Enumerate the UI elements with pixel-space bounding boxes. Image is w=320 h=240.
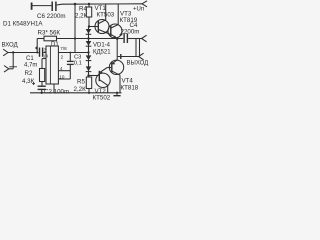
wire pin10 <box>58 78 70 80</box>
node <box>87 51 89 53</box>
node <box>41 92 43 94</box>
diode VD1 <box>86 29 92 34</box>
svg-text:0,1: 0,1 <box>74 61 82 67</box>
wire <box>89 26 98 28</box>
svg-text:С2 100m: С2 100m <box>44 88 69 95</box>
transistor VT2 <box>96 73 110 87</box>
transistor VT4 <box>109 60 123 74</box>
wire (rail to IC supply) <box>74 4 76 53</box>
ground rail <box>30 92 122 94</box>
wire top rail <box>57 4 142 5</box>
wire pin4 <box>58 70 70 72</box>
svg-text:14: 14 <box>43 54 49 59</box>
wire output lower <box>118 56 139 58</box>
node <box>88 92 90 94</box>
svg-text:КТ818: КТ818 <box>121 84 139 91</box>
input terminal lower <box>4 66 9 69</box>
svg-text:КТ503: КТ503 <box>97 12 115 19</box>
capacitor C3 <box>69 53 71 62</box>
svg-text:R5: R5 <box>77 79 85 86</box>
input terminal <box>3 49 8 52</box>
node <box>74 37 76 39</box>
wire input <box>8 52 39 54</box>
node <box>87 37 89 39</box>
svg-text:2,2К: 2,2К <box>75 13 88 20</box>
wire output vertical <box>116 39 118 61</box>
capacitor C4 <box>123 34 125 44</box>
op-amp D1 <box>46 46 58 84</box>
svg-text:7/8: 7/8 <box>60 46 67 51</box>
node <box>12 51 14 53</box>
wire <box>12 53 14 69</box>
resistor R4 <box>88 4 90 7</box>
svg-text:2200m: 2200m <box>121 29 140 36</box>
capacitor C2 <box>38 85 46 87</box>
resistor R5 <box>86 77 91 89</box>
svg-text:D1 К548УН1А: D1 К548УН1А <box>3 21 43 28</box>
wire IC ground <box>53 84 55 93</box>
svg-text:ВХОД: ВХОД <box>2 43 18 49</box>
wire diode column <box>88 27 90 76</box>
svg-text:2: 2 <box>61 55 64 60</box>
svg-text:10: 10 <box>59 74 65 79</box>
svg-text:2,2К: 2,2К <box>74 86 87 93</box>
svg-text:КД521: КД521 <box>93 50 111 56</box>
ground <box>116 93 118 96</box>
node <box>88 3 90 5</box>
wire <box>32 5 51 7</box>
wire <box>128 38 142 40</box>
svg-text:С6 2200m: С6 2200m <box>37 13 66 20</box>
transistor VT3 <box>108 24 122 38</box>
node <box>87 74 89 76</box>
node R3 input <box>36 52 38 54</box>
wire R2 pin <box>42 58 46 60</box>
wire <box>43 52 46 54</box>
svg-text:R3* 56К: R3* 56К <box>38 30 61 37</box>
svg-text:D1: D1 <box>51 42 59 48</box>
diode VD2 <box>86 41 92 46</box>
diode VD4 <box>86 66 92 71</box>
wire <box>117 38 123 40</box>
resistor R2 <box>40 69 45 82</box>
svg-text:3: 3 <box>44 48 47 53</box>
svg-text:4,3К: 4,3К <box>22 78 35 85</box>
svg-text:КТ502: КТ502 <box>93 94 111 100</box>
svg-text:+Uп: +Uп <box>133 7 144 13</box>
output terminal top <box>142 35 147 38</box>
node <box>116 92 118 94</box>
output terminal bottom <box>139 53 144 56</box>
svg-text:С1: С1 <box>26 56 34 62</box>
+Un terminal <box>142 1 147 4</box>
wire IC output <box>58 52 88 54</box>
diode VD3 <box>86 55 92 60</box>
node output <box>116 37 119 40</box>
transistor VT1 <box>95 20 109 34</box>
capacitor C1 <box>39 48 41 57</box>
node <box>74 3 77 6</box>
svg-text:R2: R2 <box>25 70 33 77</box>
phone jack lines <box>135 39 137 57</box>
capacitor C6 <box>51 2 53 12</box>
svg-text:4,7m: 4,7m <box>24 63 37 69</box>
svg-text:R4: R4 <box>79 6 87 13</box>
node VT1 base <box>88 25 90 27</box>
svg-text:ВЫХОД: ВЫХОД <box>127 61 149 67</box>
resistor R3 <box>37 38 44 40</box>
node C3 tap <box>69 52 71 54</box>
terminal bar top-left <box>31 3 33 10</box>
svg-text:4: 4 <box>60 66 63 71</box>
svg-text:С3: С3 <box>74 54 81 60</box>
svg-text:VD1-4: VD1-4 <box>93 43 111 49</box>
